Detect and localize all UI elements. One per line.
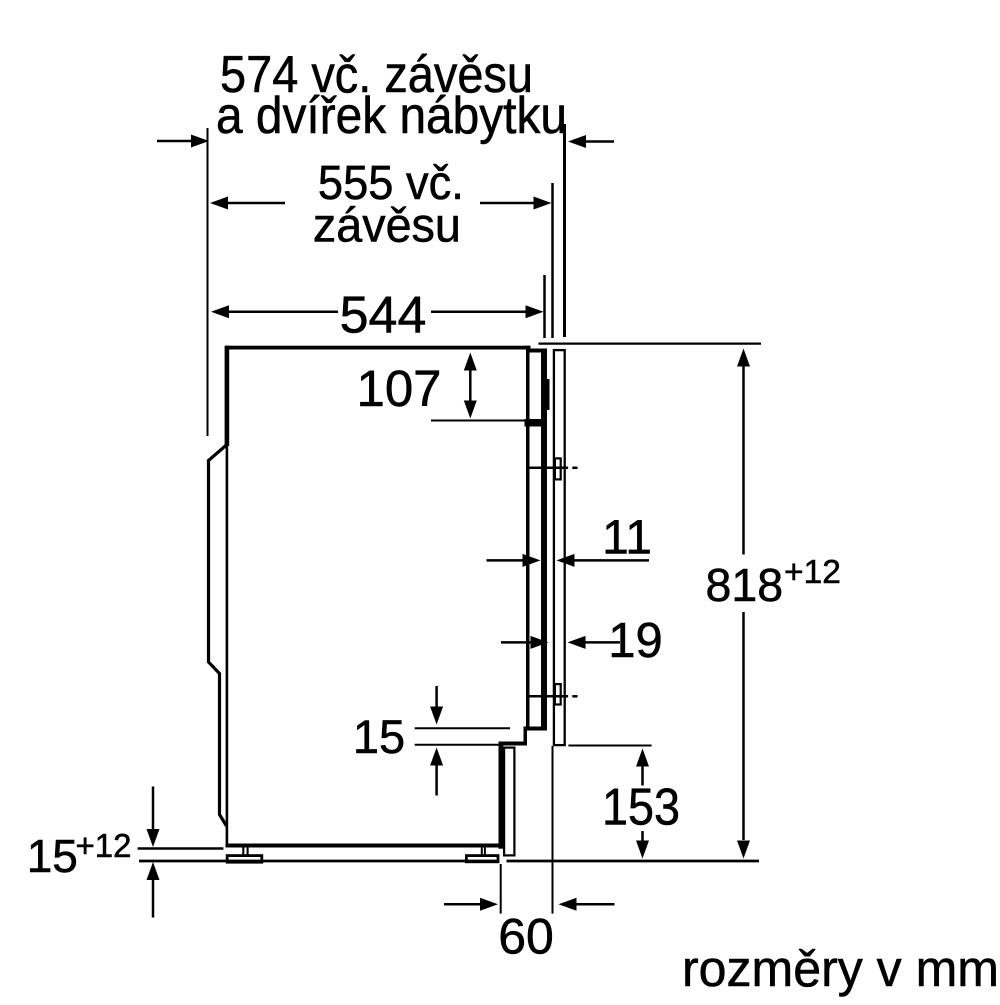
19 dim left arrow: [501, 641, 531, 644]
15+12 up arrow: [147, 862, 160, 880]
right foot stem right line: [484, 848, 486, 856]
153 top extension line: [568, 745, 651, 747]
svg-text:818: 818: [706, 559, 784, 611]
svg-text:11: 11: [602, 512, 652, 565]
upper hinge body: [555, 458, 561, 479]
step 1 vertical: [524, 727, 528, 744]
15+12 down arrow: [152, 787, 155, 831]
body front face line: [526, 346, 530, 728]
60 dim left arrow: [444, 903, 481, 906]
furniture plinth board: [504, 748, 514, 856]
153 dim up arrow: [636, 749, 649, 767]
step 2 horizontal: [499, 742, 528, 746]
upper hinge axis line: [527, 467, 568, 470]
574 dim right arrow: [568, 135, 586, 148]
svg-text:rozměry v mm: rozměry v mm: [682, 940, 999, 997]
svg-text:závěsu: závěsu: [313, 200, 461, 253]
574 dim left arrow: [157, 140, 192, 143]
544 dim right arrow: [431, 310, 526, 313]
15 step lower extension line: [415, 744, 499, 746]
left foot base: [227, 856, 262, 863]
body left side edge (full height): [226, 346, 229, 845]
door bottom bar: [525, 419, 547, 427]
60 dim right arrow: [559, 898, 577, 911]
15 step up arrow: [430, 748, 443, 766]
extension line x=564.5 (574 dim / panel front): [563, 124, 566, 337]
right foot base: [466, 856, 498, 862]
floor line right segment: [507, 860, 760, 863]
153 dim down arrow: [641, 831, 644, 841]
11 dim right arrow: [557, 554, 575, 567]
body bottom edge: [226, 844, 504, 848]
right foot stem left line: [481, 848, 483, 856]
818 dim line upper shaft and up arrow: [737, 349, 750, 367]
15+12 upper extension line: [138, 847, 224, 850]
floor line left segment: [139, 860, 499, 863]
555 dim right arrow: [480, 202, 534, 205]
svg-text:+12: +12: [76, 827, 132, 864]
extension line top right for 818 dim: [539, 343, 762, 345]
544 dim left arrow: [211, 305, 229, 318]
door hinge bulge: [547, 379, 550, 410]
svg-text:60: 60: [498, 909, 554, 965]
left foot stem right line: [247, 848, 249, 856]
left foot stem left line: [242, 848, 244, 856]
svg-text:a dvířek nábytku: a dvířek nábytku: [216, 87, 567, 145]
svg-text:107: 107: [356, 360, 441, 417]
svg-text:15: 15: [27, 830, 78, 882]
19 dim right arrow: [568, 636, 586, 649]
svg-text:15: 15: [353, 710, 405, 763]
machine door front (thick): [541, 349, 547, 731]
107 dim double arrow: [469, 366, 472, 405]
body top edge: [225, 346, 530, 350]
plinth recess front: [499, 743, 504, 849]
60 right extension line (panel back extended): [552, 746, 554, 914]
svg-text:19: 19: [608, 614, 663, 668]
15 step upper extension line: [415, 727, 510, 729]
lower hinge axis line: [528, 695, 568, 698]
lower hinge body: [555, 684, 561, 704]
11 dim left arrow: [487, 559, 524, 562]
555 dim left arrow: [210, 197, 228, 210]
60 left extension line: [500, 864, 502, 914]
svg-text:153: 153: [602, 779, 680, 837]
back bulge contour with chamfers: [209, 445, 228, 827]
107 extension line: [431, 420, 527, 422]
body left edge upper thick segment: [225, 346, 230, 446]
svg-text:+12: +12: [784, 554, 841, 591]
step 1 horizontal: [524, 727, 548, 731]
machine door top cap: [530, 349, 548, 353]
extension line left (back face) x=207.5: [207, 128, 209, 436]
15 step down arrow: [435, 686, 438, 708]
extension line x=544.5 (544 dim): [543, 275, 546, 338]
svg-text:544: 544: [340, 287, 427, 345]
818 dim line lower shaft and down arrow: [742, 612, 745, 840]
extension line x=552.5 (555 dim / panel back): [551, 183, 554, 338]
furniture door panel: [554, 350, 565, 745]
